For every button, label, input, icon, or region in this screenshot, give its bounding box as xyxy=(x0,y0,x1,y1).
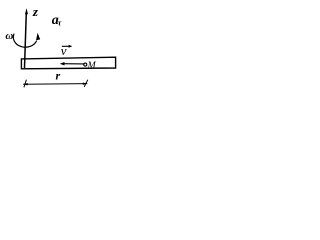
dimension line r xyxy=(23,83,87,86)
left dimension arrowhead xyxy=(23,83,28,85)
v overbar arrowhead xyxy=(69,45,73,48)
bar (rod) xyxy=(21,57,115,69)
svg-text:ω: ω xyxy=(5,30,13,42)
right oblique tick xyxy=(84,80,88,87)
svg-text:z: z xyxy=(32,4,39,19)
velocity arrowhead xyxy=(60,62,65,66)
point M dot xyxy=(84,63,87,66)
svg-text:τ: τ xyxy=(58,18,62,27)
left oblique tick xyxy=(24,80,27,88)
svg-text:r: r xyxy=(56,69,61,83)
v vector overbar arrow xyxy=(62,45,71,47)
z axis line xyxy=(25,13,27,69)
right dimension arrowhead xyxy=(83,83,88,85)
rotation arrowhead xyxy=(36,33,40,41)
svg-text:M: M xyxy=(87,60,97,71)
velocity arrow line xyxy=(62,63,85,65)
z axis arrowhead xyxy=(25,8,28,14)
rotation arc xyxy=(13,34,36,48)
svg-text:v: v xyxy=(61,43,67,58)
